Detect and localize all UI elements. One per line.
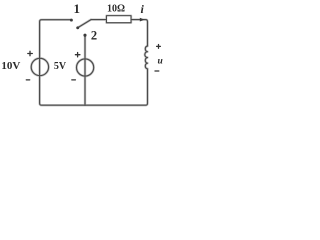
plus sign V1 [28,51,33,55]
wire bottom right segment [85,69,148,105]
wire resistor to top-right corner [131,20,148,46]
minus sign u [155,70,159,72]
source V2 5V circle [77,59,94,76]
minus sign V1 [26,79,29,81]
node terminal 2 dot [83,34,86,37]
inductor L coil [145,46,148,69]
resistor R 10ohm box [107,16,132,23]
source V1 10V circle [31,58,48,75]
svg-text:2: 2 [91,29,97,43]
svg-text:1: 1 [74,1,81,16]
plus sign V2 [75,53,80,57]
svg-text:10V: 10V [1,60,20,72]
svg-text:5V: 5V [54,61,67,72]
switch blade S [79,20,92,28]
svg-text:10Ω: 10Ω [107,4,125,15]
node terminal 1 dot [70,19,73,22]
wire left vertical with top-left corner [40,20,85,106]
node switch pole dot [76,26,79,29]
wire middle branch [84,35,86,105]
plus sign u [157,45,161,49]
wire blade to resistor [91,19,107,21]
svg-text:u: u [158,57,163,67]
minus sign V2 [72,79,76,81]
current arrow i head [140,18,145,22]
